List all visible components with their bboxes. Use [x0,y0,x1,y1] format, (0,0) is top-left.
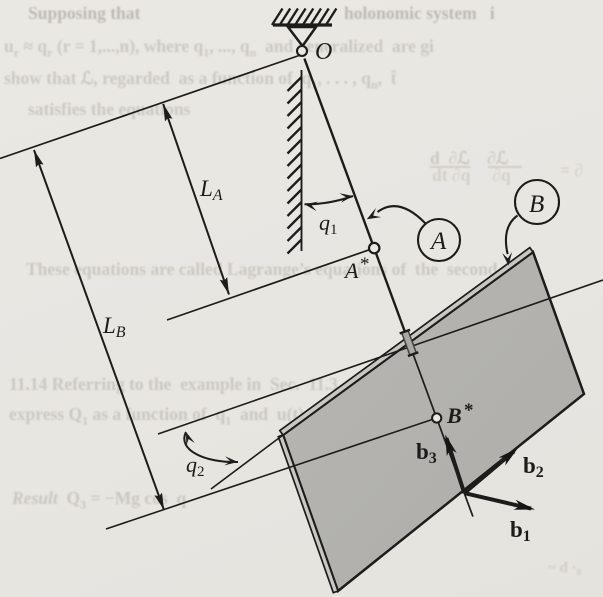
svg-text:b2: b2 [523,453,544,481]
extension line through B* [106,418,437,529]
point A* [369,243,379,253]
ghost bleed-through text line 4 [28,99,190,120]
label q2 [186,452,205,480]
vector b2 [464,448,518,493]
svg-text:O: O [315,39,332,65]
ghost bleed-through text line 3 [4,68,397,93]
leader arrow to plate B [502,216,517,266]
svg-text:*: * [360,254,370,275]
label L_A [199,176,223,204]
hinge cylinder [400,330,419,356]
label O [315,39,332,65]
label A* [343,254,370,283]
ghost fragment right edge [560,160,583,181]
pin support triangle [288,27,316,46]
ghost pencil scribble bottom right [548,560,581,577]
vector b3 [445,435,464,494]
leader arrow to rod A [367,206,426,223]
extension line through O (top reference) [0,55,302,159]
ghost bleed-through text line 1 [28,3,140,24]
plate B left-edge thickness band [278,435,338,593]
svg-text:LB: LB [102,313,126,341]
svg-text:B: B [529,191,544,218]
ghost result line [12,488,186,513]
extension line through A* [167,248,374,320]
svg-text:b1: b1 [510,517,531,545]
body label circle A [418,219,460,261]
ghost bleed-through middle line [26,259,521,280]
label b3 [416,439,437,467]
label L_B [102,313,126,341]
svg-text:*: * [464,400,474,421]
angle q2 arc [184,432,238,465]
dimension line L_B [34,150,164,510]
ghost bleed-through text line 1b [344,3,495,24]
wall line [301,70,303,251]
svg-text:q1: q1 [319,210,338,238]
svg-text:A: A [343,258,359,283]
label q1 [319,210,338,238]
ghost fraction bar 1 [430,166,470,168]
ghost 11.14 line 1 [9,374,417,395]
plate B body [283,252,584,591]
label B* [446,400,474,428]
ceiling [273,23,332,26]
vector b1 [464,493,535,510]
rod axis extension through plate [409,343,473,517]
svg-text:B: B [446,403,462,428]
svg-text:LA: LA [199,176,223,204]
point B* [432,413,441,422]
svg-text:A: A [429,228,447,255]
wall hatching [288,77,302,254]
body label circle B [515,180,559,224]
ghost bleed-through text line 2 [4,36,434,61]
dimension line L_A [163,104,229,295]
pivot at O [297,46,307,56]
ghost 11.14 line 2 [9,404,304,429]
rod A [304,59,409,343]
label b1 [510,517,531,545]
plate top edge extension (q2 line) [211,435,283,489]
plate B top-edge thickness band [280,248,533,435]
angle q1 arc [305,193,354,211]
label b2 [523,453,544,481]
ghost equation fragment [430,148,509,169]
ghost fraction bar 2 [488,166,522,168]
ceiling hatching [272,9,336,26]
reference line through hinge [158,280,603,434]
